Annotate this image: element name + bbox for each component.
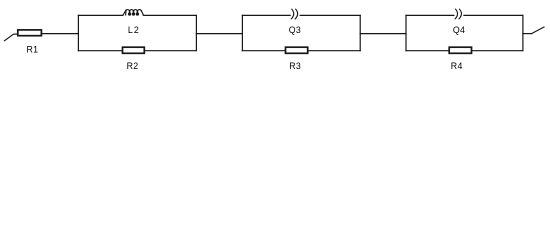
- wire section2 bottom-left rail: [242, 50, 285, 52]
- svg-text:L2: L2: [128, 25, 140, 35]
- wire section3 bottom-left rail: [406, 50, 449, 52]
- resistor R2: [123, 47, 145, 53]
- svg-text:R2: R2: [127, 61, 139, 71]
- node section3 left edge: [405, 15, 407, 50]
- wire section3 top-left rail: [406, 14, 454, 16]
- node section2 left edge: [241, 15, 243, 50]
- wire section2 top-left rail: [242, 14, 290, 16]
- node section3 right edge: [522, 15, 524, 50]
- node section1 left edge: [77, 15, 79, 50]
- wire section1 top-right rail: [144, 14, 197, 16]
- resistor R4: [449, 47, 471, 53]
- wire section3 bottom-right rail: [472, 50, 523, 52]
- wire section2 to section3: [360, 33, 406, 35]
- wire section1 bottom-left rail: [78, 50, 122, 52]
- output wire: [523, 33, 532, 35]
- wire section1 to section2: [196, 33, 242, 35]
- inductor L2: [123, 10, 144, 16]
- svg-text:R1: R1: [27, 45, 39, 55]
- node section2 right edge: [359, 15, 361, 50]
- svg-text:R4: R4: [451, 61, 463, 71]
- output terminal tick: [532, 27, 545, 34]
- input terminal tick: [5, 34, 18, 41]
- wire section3 top-right rail: [464, 14, 523, 16]
- wire R1 to section 1: [41, 33, 78, 35]
- svg-text:R3: R3: [289, 61, 301, 71]
- crystal Q3: [291, 9, 297, 19]
- svg-text:Q4: Q4: [453, 25, 465, 35]
- svg-text:Q3: Q3: [289, 25, 301, 35]
- wire section1 bottom-right rail: [144, 50, 196, 52]
- resistor R1: [18, 30, 42, 36]
- wire section2 top-right rail: [300, 14, 360, 16]
- node section1 right edge: [195, 15, 197, 50]
- wire section2 bottom-right rail: [308, 50, 361, 52]
- wire section1 top-left rail: [78, 14, 122, 16]
- resistor R3: [286, 47, 308, 53]
- crystal Q4: [455, 9, 461, 19]
